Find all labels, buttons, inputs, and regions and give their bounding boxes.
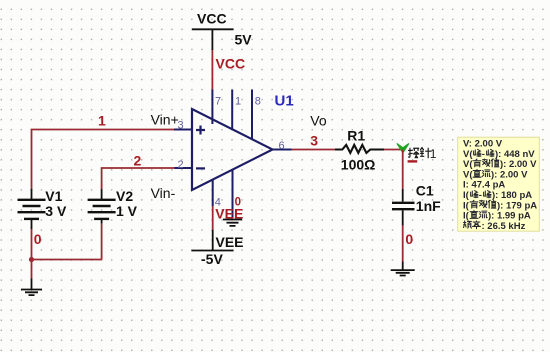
probe measurement box xyxy=(458,137,540,231)
svg-text:I(: I( xyxy=(463,211,470,222)
ground (right) xyxy=(391,270,415,275)
svg-text:0: 0 xyxy=(34,231,42,247)
wire net 0 below C1 (red) xyxy=(402,226,404,262)
battery V1 xyxy=(18,189,46,229)
svg-text:100Ω: 100Ω xyxy=(341,156,376,172)
svg-text:C1: C1 xyxy=(416,183,434,199)
svg-text:-: - xyxy=(482,149,485,160)
battery V2 xyxy=(88,189,116,224)
wire net 1 (V1 to pin 3) xyxy=(32,130,175,191)
wire net 3 vertical to C1 (red) xyxy=(402,150,404,189)
svg-text:3 V: 3 V xyxy=(45,203,67,219)
svg-text:-5V: -5V xyxy=(201,251,223,267)
pin 1 xyxy=(231,90,233,130)
probe arrow (green) xyxy=(397,144,408,153)
pin 6 (output) xyxy=(273,149,292,151)
op-amp U1 xyxy=(192,109,273,190)
pin 2 (inverting input) xyxy=(175,167,193,169)
capacitor C1 xyxy=(392,203,415,209)
svg-text:2: 2 xyxy=(134,153,142,169)
op-amp plus marking xyxy=(196,126,205,135)
svg-text:Vin-: Vin- xyxy=(151,185,176,201)
ground (pin 5) xyxy=(223,220,242,226)
svg-text:V2: V2 xyxy=(116,188,133,204)
ground (left) xyxy=(21,290,42,296)
svg-text:VCC: VCC xyxy=(197,11,227,27)
measurement CJK glyphs xyxy=(464,149,499,228)
svg-text:VCC: VCC xyxy=(216,56,246,72)
pin 3 (non-inverting input) xyxy=(174,129,192,131)
wire to C1 top plate (black) xyxy=(402,189,404,202)
svg-text:1 V: 1 V xyxy=(116,203,138,219)
pin 4 (V-) xyxy=(212,180,214,206)
pin 5 xyxy=(232,170,234,218)
svg-text:1: 1 xyxy=(98,113,106,129)
svg-text:7: 7 xyxy=(215,95,221,107)
svg-text:8: 8 xyxy=(255,95,261,107)
wire net 3 (output to R1, red) xyxy=(292,149,336,151)
svg-text:2: 2 xyxy=(178,159,184,171)
op-amp minus marking xyxy=(196,167,205,169)
wire VCC net (red) xyxy=(211,50,213,90)
svg-text:5V: 5V xyxy=(235,32,253,48)
junction dot xyxy=(29,257,34,262)
wire net 0 horizontal (red) xyxy=(32,259,102,261)
svg-text:6: 6 xyxy=(279,140,285,152)
power symbol VEE xyxy=(191,250,233,252)
wire net 2 (V2 to pin 2) xyxy=(102,168,175,189)
pin 8 xyxy=(251,90,253,140)
wire net 0 from V2 bottom (red) xyxy=(101,224,103,260)
svg-text:1: 1 xyxy=(430,147,437,161)
wire to ground (black) xyxy=(31,279,33,290)
svg-text:V1: V1 xyxy=(45,188,62,204)
wire VEE net (red) xyxy=(212,206,214,230)
svg-text:VEE: VEE xyxy=(215,205,243,221)
wire to VEE symbol (black) xyxy=(212,230,214,251)
wire to ground (black) xyxy=(402,262,404,270)
svg-text:1: 1 xyxy=(235,95,241,107)
svg-text:Vin+: Vin+ xyxy=(151,111,179,127)
wire R1 to probe corner (red) xyxy=(384,149,403,151)
svg-text:3: 3 xyxy=(310,133,318,149)
measurement text xyxy=(463,139,537,232)
svg-text:-: - xyxy=(479,190,482,201)
svg-text:U1: U1 xyxy=(275,93,294,110)
svg-text:VEE: VEE xyxy=(216,234,244,250)
svg-text:Vo: Vo xyxy=(310,112,327,128)
power symbol VCC xyxy=(192,29,234,50)
probe red tick xyxy=(408,160,418,162)
svg-text:0: 0 xyxy=(405,231,413,247)
svg-text:: 26.5 kHz: : 26.5 kHz xyxy=(482,221,526,232)
wire net 0 from V1 bottom (red) xyxy=(31,229,33,279)
pin 7 (V+) xyxy=(211,90,213,125)
resistor R1 xyxy=(335,145,384,153)
svg-text:1nF: 1nF xyxy=(416,198,441,214)
svg-text:R1: R1 xyxy=(347,128,365,144)
probe label 探针1 xyxy=(409,148,431,158)
wire C1 bottom (black) xyxy=(402,210,404,225)
